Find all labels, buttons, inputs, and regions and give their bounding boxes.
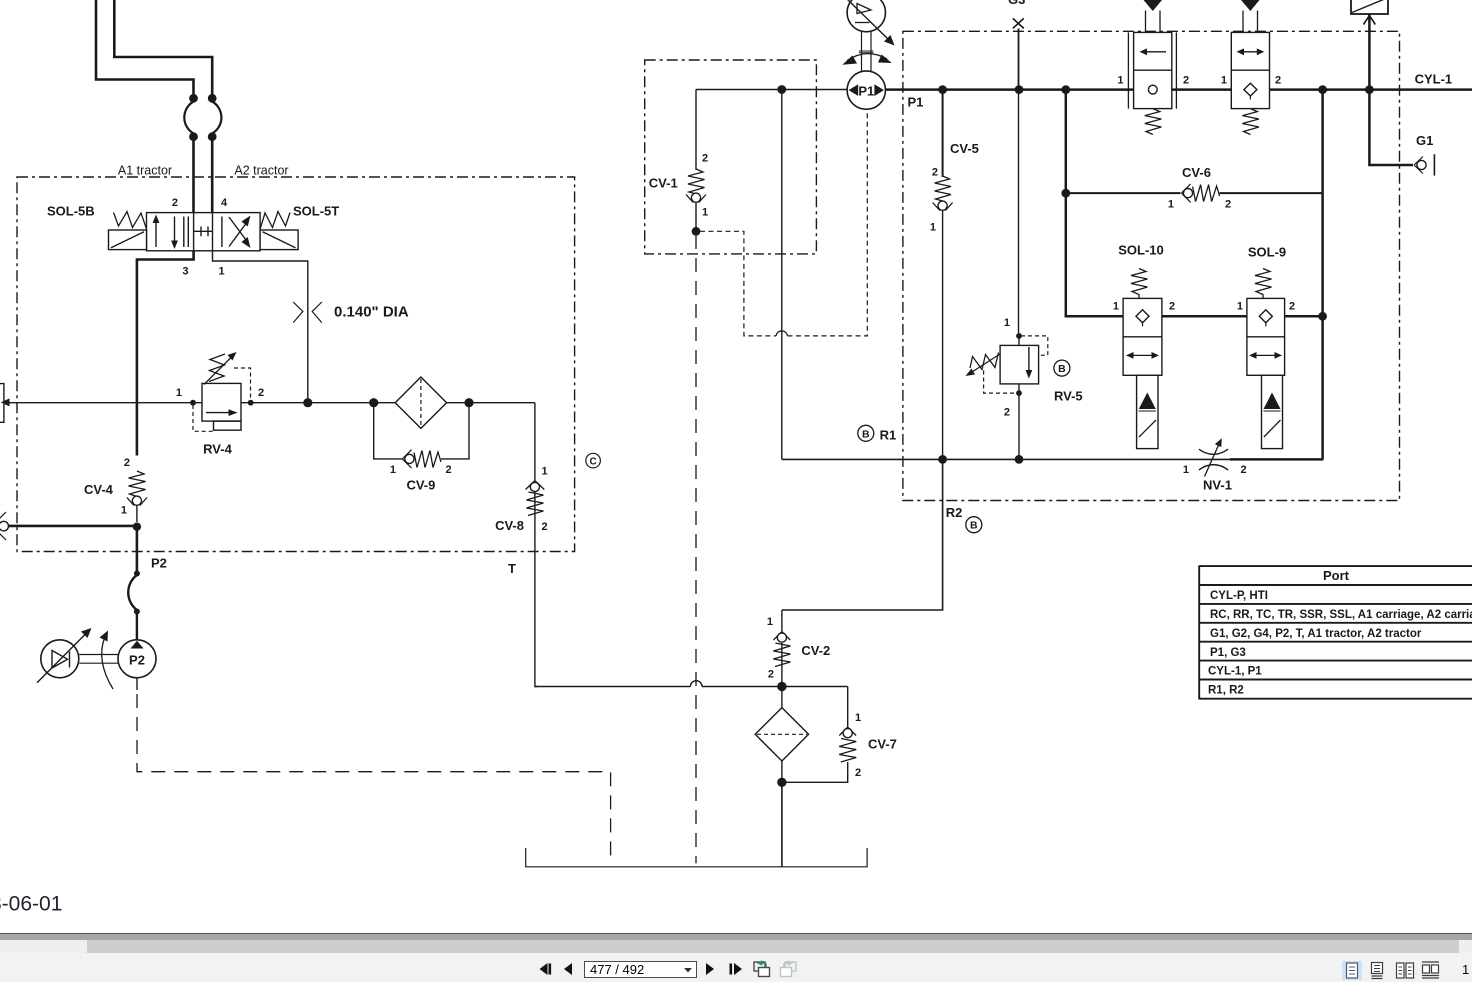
scrollbar track bbox=[0, 940, 1472, 952]
toolbar previous page button bbox=[562, 962, 574, 976]
svg-text:1: 1 bbox=[176, 387, 182, 399]
pump P2 bbox=[118, 640, 156, 678]
cartridge check valve (right, on P1 line) bbox=[1231, 0, 1269, 135]
solenoid SOL-5T spring bbox=[260, 212, 290, 230]
arrow rotation P1 bbox=[847, 54, 887, 61]
svg-text:G1: G1 bbox=[1416, 133, 1433, 148]
svg-text:P2: P2 bbox=[129, 653, 145, 668]
svg-text:2: 2 bbox=[1289, 301, 1295, 313]
wire tank header line with hop bbox=[535, 686, 691, 688]
valve SOL-5 left cell arrows bbox=[153, 215, 189, 250]
wire filter to tank bbox=[781, 782, 783, 867]
motor drive P1 (top, cut) bbox=[847, 0, 885, 32]
orifice 0.140 DIA bbox=[293, 302, 322, 323]
svg-text:CV-9: CV-9 bbox=[406, 478, 435, 493]
svg-text:1: 1 bbox=[1004, 317, 1010, 329]
node SOL feed / CV-6 bbox=[1061, 189, 1070, 198]
test port G1 bbox=[1414, 154, 1434, 175]
check valve CV-8 bbox=[526, 481, 545, 687]
cartridge valve SOL-9 bbox=[1247, 269, 1285, 449]
node RV-5 outlet to R1 line bbox=[1015, 455, 1024, 464]
svg-text:CYL-1, P1: CYL-1, P1 bbox=[1208, 666, 1262, 678]
coupler quick-disconnect bbox=[184, 95, 221, 140]
svg-text:4: 4 bbox=[0, 498, 1, 510]
svg-text:2: 2 bbox=[172, 197, 178, 209]
svg-text:CV-6: CV-6 bbox=[1182, 165, 1211, 180]
cartridge valve SOL-10 bbox=[1123, 269, 1162, 449]
filter CV-9 diamond bbox=[395, 377, 446, 428]
toolbar first page button bbox=[537, 962, 554, 976]
wire return branch vertical (thick) bbox=[1321, 90, 1324, 460]
wire R2 return to CV-2 bbox=[782, 459, 943, 610]
layout button single page (selected) bbox=[1342, 961, 1362, 980]
wire G1 branch (thick) bbox=[1369, 90, 1413, 165]
svg-text:1: 1 bbox=[1221, 75, 1227, 87]
node CV-9 left bbox=[369, 398, 378, 407]
svg-text:RC, RR, TC, TR, SSR, SSL, A1 c: RC, RR, TC, TR, SSR, SSL, A1 carriage, A… bbox=[1210, 609, 1472, 621]
svg-text:CV-7: CV-7 bbox=[868, 737, 897, 752]
plugged port G3 (X) bbox=[1013, 18, 1024, 28]
svg-text:P1, G3: P1, G3 bbox=[1210, 647, 1246, 659]
svg-text:1: 1 bbox=[855, 712, 861, 724]
node orifice junction bbox=[303, 398, 312, 407]
svg-text:NV-1: NV-1 bbox=[1203, 478, 1232, 493]
svg-text:B: B bbox=[970, 520, 978, 532]
svg-text:Port: Port bbox=[1323, 568, 1350, 583]
solenoid SOL-5T box bbox=[260, 230, 298, 250]
svg-text:1: 1 bbox=[1117, 75, 1123, 87]
check valve CV-2 bbox=[773, 610, 790, 687]
toolbar page number input bbox=[584, 961, 697, 979]
svg-text:2: 2 bbox=[702, 153, 708, 165]
circled B at R1 bbox=[858, 425, 874, 441]
svg-text:2: 2 bbox=[542, 521, 548, 533]
RV-4 spring (diagonal, adjustable) bbox=[209, 354, 225, 382]
svg-text:SOL-5T: SOL-5T bbox=[293, 204, 339, 219]
solenoid SOL-5B box bbox=[109, 230, 147, 250]
circled B at R2 bbox=[966, 517, 982, 533]
svg-text:P2: P2 bbox=[151, 556, 167, 571]
wire valve port1 to orifice bbox=[213, 251, 308, 403]
port table bbox=[1199, 566, 1472, 700]
wire main line to CV-8 corner bbox=[534, 403, 536, 480]
node CV-1 outlet bbox=[692, 227, 701, 236]
wire SOL-10 port2 to SOL-9 port1 (thick) bbox=[1162, 315, 1247, 318]
arrow variable displacement P2 bbox=[37, 634, 86, 683]
svg-text:2: 2 bbox=[1275, 75, 1281, 87]
toolbar input dropdown caret bbox=[683, 967, 693, 973]
svg-text:1: 1 bbox=[702, 207, 708, 219]
node RV-4 port 1 bbox=[190, 400, 196, 406]
valve SOL-5 right cell crossed arrows bbox=[222, 216, 251, 249]
relief valve RV-5 bbox=[1016, 333, 1022, 339]
wire CV-1 to P1 line bbox=[696, 89, 847, 91]
wire tank return (long dashed) from CV-1 node bbox=[695, 235, 697, 863]
node return branch / SOL-9 bbox=[1318, 312, 1327, 321]
wire main line left (to RV-4, CV-9) bbox=[5, 402, 202, 404]
svg-text:2: 2 bbox=[446, 464, 452, 476]
enclosure box right system (dash-dot) bbox=[903, 31, 1400, 500]
node CV-9 right bbox=[464, 398, 473, 407]
node RV-4 port 2 bbox=[248, 400, 254, 406]
svg-text:1: 1 bbox=[219, 266, 225, 278]
svg-text:1: 1 bbox=[767, 616, 773, 628]
svg-text:A2 tractor: A2 tractor bbox=[234, 164, 288, 178]
wire junction to left edge (thick) bbox=[9, 525, 137, 528]
wire coupler to valve port 4 bbox=[211, 140, 214, 213]
wire A2 tractor supply (thick L) bbox=[114, 0, 212, 95]
svg-text:SOL-9: SOL-9 bbox=[1248, 245, 1286, 260]
scrollbar thumb bbox=[87, 940, 1459, 952]
svg-text:1: 1 bbox=[1237, 301, 1243, 313]
relief valve RV-4 bbox=[202, 383, 241, 421]
svg-text:1: 1 bbox=[1113, 301, 1119, 313]
toolbar separator line bbox=[0, 933, 1472, 935]
enclosure box CV-1 (dash-dot) bbox=[645, 60, 817, 254]
svg-text:2: 2 bbox=[1225, 199, 1231, 211]
RV-5 pilot dashed lines bbox=[984, 336, 1048, 393]
svg-text:CV-1: CV-1 bbox=[649, 176, 678, 191]
toolbar next page button bbox=[704, 962, 716, 976]
svg-text:2: 2 bbox=[258, 387, 264, 399]
node CV-4 junction bbox=[133, 523, 141, 531]
svg-text:2: 2 bbox=[1241, 464, 1247, 476]
svg-text:2: 2 bbox=[124, 457, 130, 469]
RV-4 internal arrow bbox=[206, 412, 232, 414]
svg-text:2: 2 bbox=[932, 167, 938, 179]
node on CV-1 line bbox=[777, 85, 786, 94]
arrow rotation P2 bbox=[102, 638, 113, 689]
svg-text:G3: G3 bbox=[1008, 0, 1025, 7]
svg-text:0.140" DIA: 0.140" DIA bbox=[334, 304, 409, 321]
svg-text:T: T bbox=[508, 561, 516, 576]
check valve CV-9 bypass bbox=[374, 403, 469, 468]
check valve CV-7 bypass bbox=[786, 687, 856, 783]
layout button two page bbox=[1395, 961, 1415, 980]
circled B at RV-5 bbox=[1054, 360, 1070, 376]
valve SOL-5 center cell H bbox=[194, 227, 213, 237]
svg-text:1: 1 bbox=[1183, 464, 1189, 476]
hose P2 flexible section bbox=[128, 571, 140, 641]
wire G3 to RV-5 bbox=[1018, 28, 1020, 89]
circled C bbox=[586, 453, 601, 468]
svg-text:CV-5: CV-5 bbox=[950, 141, 979, 156]
svg-text:P1: P1 bbox=[908, 95, 924, 110]
needle valve NV-1 bbox=[1199, 449, 1228, 470]
tank bbox=[526, 848, 867, 867]
svg-text:R1: R1 bbox=[880, 428, 897, 443]
motor M (drive) bbox=[41, 640, 79, 678]
svg-text:2: 2 bbox=[1183, 75, 1189, 87]
svg-text:CV-2: CV-2 bbox=[801, 643, 830, 658]
pilot wire P1 drain (fine dashed) bbox=[700, 109, 867, 336]
wire SOL-9 port2 to return branch (thick) bbox=[1285, 315, 1324, 318]
svg-text:RV-5: RV-5 bbox=[1054, 389, 1083, 404]
svg-text:1: 1 bbox=[930, 222, 936, 234]
node filter inlet bbox=[777, 682, 786, 691]
solenoid SOL-5B spring bbox=[114, 212, 147, 230]
page indicator 1 bbox=[1462, 962, 1469, 977]
svg-text:SOL-5B: SOL-5B bbox=[47, 204, 95, 219]
svg-text:R1, R2: R1, R2 bbox=[1208, 685, 1244, 697]
svg-text:1: 1 bbox=[390, 464, 396, 476]
wire coupler to valve port 2 bbox=[192, 140, 195, 213]
svg-text:RV-4: RV-4 bbox=[203, 442, 232, 457]
svg-text:A1 tractor: A1 tractor bbox=[118, 164, 172, 178]
node filter outlet bbox=[777, 778, 786, 787]
filter (return) diamond bbox=[755, 708, 808, 761]
RV-5 spring (adjustable) bbox=[970, 353, 999, 370]
cut component at left edge bbox=[0, 384, 10, 423]
wire cooler branch (solid) down from CV-1 line bbox=[781, 90, 783, 460]
check valve fragment at left edge bbox=[0, 512, 9, 540]
svg-text:CYL-1: CYL-1 bbox=[1415, 72, 1453, 87]
wire CV-4 junction down to P2 (thick) bbox=[136, 527, 139, 571]
shaft P1 drive bbox=[862, 32, 872, 71]
wire SOL feed branch (thick) bbox=[1066, 90, 1123, 317]
svg-text:C: C bbox=[589, 456, 596, 467]
check valve CV-5 bbox=[933, 90, 953, 460]
svg-text:1: 1 bbox=[1168, 199, 1174, 211]
svg-text:3: 3 bbox=[182, 266, 188, 278]
toolbar previous view button bbox=[752, 959, 772, 980]
RV-4 pilot dashed line bbox=[193, 368, 251, 431]
check valve CV-6 bbox=[1066, 184, 1324, 202]
check valve CV-1 bbox=[686, 90, 706, 229]
cartridge check valve (left, on P1 line) bbox=[1128, 0, 1176, 135]
svg-text:R2: R2 bbox=[946, 505, 963, 520]
svg-text:B: B bbox=[1058, 363, 1066, 375]
svg-text:1: 1 bbox=[542, 466, 548, 478]
status bar upper gray band bbox=[0, 934, 1472, 940]
layout button two page scroll bbox=[1421, 961, 1441, 980]
wire pump P2 drain (dashed) bbox=[136, 678, 138, 690]
svg-text:SOL-10: SOL-10 bbox=[1118, 243, 1164, 258]
wire R1 return line bbox=[782, 458, 943, 460]
svg-text:1: 1 bbox=[121, 505, 127, 517]
toolbar last page button bbox=[728, 962, 745, 976]
svg-text:4: 4 bbox=[221, 197, 228, 209]
toolbar next view button (disabled) bbox=[778, 959, 798, 980]
svg-text:P1: P1 bbox=[858, 83, 874, 98]
node P1 line / G3 bbox=[1015, 85, 1024, 94]
enclosure box left (dash-dot) bbox=[17, 177, 575, 552]
svg-text:2: 2 bbox=[1169, 301, 1175, 313]
wire A1 tractor supply (thick L) bbox=[96, 0, 194, 95]
svg-text:B: B bbox=[862, 428, 870, 440]
toolbar background bbox=[0, 953, 1472, 982]
svg-text:G1, G2, G4, P2, T, A1 tractor,: G1, G2, G4, P2, T, A1 tractor, A2 tracto… bbox=[1210, 628, 1422, 640]
svg-text:2: 2 bbox=[855, 767, 861, 779]
wire valve port3 to CV-4 (thick) bbox=[137, 251, 194, 456]
valve SOL-5 body bbox=[147, 213, 261, 251]
check valve CV-4 bbox=[127, 471, 147, 522]
node CV-5 to R1 line bbox=[938, 455, 947, 464]
shaft P2 drive bbox=[79, 655, 118, 664]
cylinder CYL-P fragment (top right) bbox=[1351, 0, 1388, 90]
svg-text:CV-8: CV-8 bbox=[495, 518, 524, 533]
wire pressure line P1 to CYL-1 (thick) bbox=[886, 88, 1472, 91]
hop of dashed pilot over wire bbox=[776, 331, 788, 336]
svg-text:CYL-P, HTI: CYL-P, HTI bbox=[1210, 590, 1268, 602]
svg-text:2: 2 bbox=[1004, 407, 1010, 419]
node P1 line / G1 branch bbox=[1365, 85, 1374, 94]
svg-text:8-06-01: 8-06-01 bbox=[0, 893, 62, 916]
layout button continuous scroll bbox=[1367, 961, 1387, 980]
svg-text:CV-4: CV-4 bbox=[84, 482, 114, 497]
node P1 line / SOL branch bbox=[1061, 85, 1070, 94]
arrow variable displacement P1 bbox=[846, 0, 889, 40]
node P1 line / CV-5 bbox=[938, 85, 947, 94]
node P1 line / return branch bbox=[1318, 85, 1327, 94]
svg-text:2: 2 bbox=[768, 669, 774, 681]
pump P1 bbox=[847, 71, 885, 109]
